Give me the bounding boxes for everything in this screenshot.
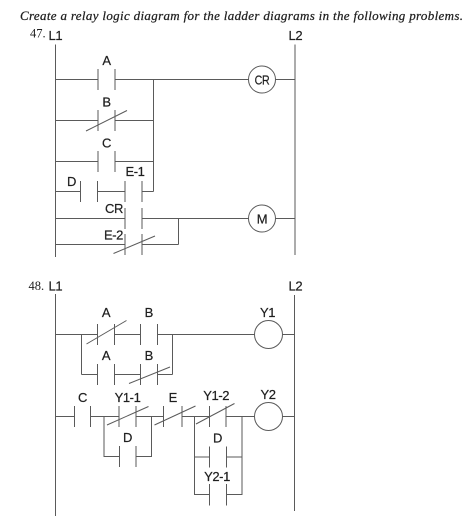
coil Y1	[255, 305, 283, 349]
wire rung Y1 left: L1 to contact A	[56, 334, 98, 336]
contact A (NO, branch rung)	[98, 348, 115, 385]
wire rung Y1 mid: contact A to contact B	[115, 334, 141, 336]
svg-text:47.: 47.	[30, 27, 46, 41]
wire rung 4 right: contact E-1 to junction	[142, 191, 154, 193]
svg-text:D: D	[123, 430, 132, 445]
branch vertical right (D / Y2-1 parallel, right)	[241, 417, 243, 496]
svg-text:CR: CR	[105, 201, 123, 216]
wire D rung right (right branch)	[227, 456, 243, 458]
contact Y1-2 (NC)	[196, 388, 235, 427]
wire rung 5 right: coil M to L2	[276, 218, 296, 220]
junction vertical wire (rungs 1-4)	[153, 80, 155, 192]
svg-text:A: A	[102, 53, 111, 68]
branch vertical right (D parallel, left)	[151, 417, 153, 458]
wire rung 4 mid: contact D to contact E-1	[98, 191, 126, 193]
svg-text:L2: L2	[289, 28, 303, 43]
wire Y2-1 rung left	[195, 494, 210, 496]
wire D rung left (right branch)	[195, 456, 210, 458]
contact B (NC)	[86, 95, 127, 132]
svg-text:A: A	[102, 348, 111, 363]
wire rung 2 left: L1 to contact B	[56, 120, 99, 122]
svg-text:CR: CR	[255, 72, 270, 87]
wire rung 1 right: coil CR to L2	[276, 79, 296, 81]
contact E-1 (NO)	[125, 164, 145, 202]
branch vertical left (D / Y2-1 parallel, right)	[194, 417, 196, 496]
wire D rung right (left branch)	[136, 456, 152, 458]
wire branch rung right: contact B to vertical	[158, 374, 173, 376]
contact D (NO)	[67, 174, 98, 202]
contact E-2 (NC)	[104, 228, 155, 256]
svg-text:D: D	[213, 431, 222, 446]
svg-text:Y1: Y1	[260, 305, 275, 320]
contact C (NO)	[75, 390, 91, 427]
svg-text:M: M	[257, 212, 267, 227]
wire rung 4 left: L1 to contact D	[56, 191, 81, 193]
svg-text:L1: L1	[49, 279, 63, 294]
wire Y2-1 rung right	[227, 494, 243, 496]
svg-text:Y1-2: Y1-2	[203, 388, 229, 403]
svg-text:D: D	[67, 174, 76, 189]
branch vertical left (D parallel, left)	[103, 417, 105, 458]
wire rung 2 right: contact B to junction	[115, 120, 154, 122]
rail L1 (48)	[55, 294, 57, 516]
svg-text:48.: 48.	[29, 279, 45, 293]
svg-text:L2: L2	[289, 279, 303, 294]
wire rung 6 left: L1 to contact E-2	[56, 244, 126, 246]
wire rung Y2: contact Y1-2 to coil Y2	[226, 416, 255, 418]
contact B (NC, branch rung)	[129, 348, 170, 385]
wire rung 3 right: contact C to junction	[115, 161, 154, 163]
svg-text:B: B	[102, 95, 110, 110]
wire rung 1 left: L1 to contact A	[56, 79, 99, 81]
contact E (NC)	[155, 390, 196, 427]
svg-text:Y2-1: Y2-1	[204, 469, 230, 484]
wire rung 1 mid: contact A to coil CR	[115, 79, 249, 81]
contact A (NC, rung Y1)	[87, 305, 127, 345]
svg-text:A: A	[102, 305, 111, 320]
wire branch rung mid: contact A to contact B	[115, 374, 141, 376]
svg-text:Y1-1: Y1-1	[115, 390, 141, 405]
wire rung 5 mid: contact CR to coil M	[142, 218, 249, 220]
contact Y2-1 (NO)	[204, 469, 230, 506]
svg-text:Create a relay logic diagram f: Create a relay logic diagram for the lad…	[20, 8, 463, 23]
contact D (NO, right branch)	[210, 431, 227, 468]
coil Y2	[255, 387, 283, 431]
contact C (NO)	[98, 136, 115, 173]
svg-text:C: C	[102, 136, 111, 151]
wire rung 5 left: L1 to contact CR	[56, 218, 126, 220]
wire rung Y2: contact C to contact Y1-1	[91, 416, 120, 418]
svg-text:B: B	[145, 305, 153, 320]
contact CR (NO)	[105, 201, 142, 229]
wire rung 6 right: contact E-2 to branch vertical	[142, 244, 179, 246]
branch vertical wire E-2 to rung 5	[178, 219, 180, 245]
rail L1 (47)	[55, 45, 57, 258]
svg-text:E-2: E-2	[104, 228, 123, 243]
svg-text:C: C	[78, 390, 87, 405]
svg-text:Y2: Y2	[260, 387, 275, 402]
branch vertical right (A-B parallel)	[172, 335, 174, 375]
wire rung Y2 left: L1 to contact C	[56, 416, 75, 418]
svg-text:L1: L1	[49, 28, 63, 43]
wire D rung left (left branch)	[104, 456, 120, 458]
coil M	[249, 205, 276, 232]
rail L2 (47)	[294, 45, 296, 256]
wire rung Y1 mid2: contact B to junction	[158, 334, 255, 336]
svg-text:E-1: E-1	[125, 164, 144, 179]
svg-text:B: B	[145, 348, 153, 363]
wire rung Y2: contact Y1-1 to contact E	[136, 416, 164, 418]
contact Y1-1 (NC)	[107, 390, 149, 427]
contact B (NO, rung Y1)	[141, 305, 158, 345]
wire rung Y2 right: coil Y2 to L2	[283, 416, 295, 418]
contact D (NO, left branch)	[120, 430, 137, 467]
contact A (NO)	[98, 53, 115, 90]
svg-text:E: E	[169, 390, 178, 405]
wire rung Y2: contact E to contact Y1-2	[182, 416, 210, 418]
coil CR	[249, 66, 276, 93]
wire branch rung left: vertical to contact A	[82, 374, 98, 376]
wire rung 3 left: L1 to contact C	[56, 161, 99, 163]
wire rung Y1 right: coil Y1 to L2	[283, 334, 295, 336]
rail L2 (48)	[294, 295, 296, 511]
branch vertical left (A-B parallel)	[81, 335, 83, 375]
